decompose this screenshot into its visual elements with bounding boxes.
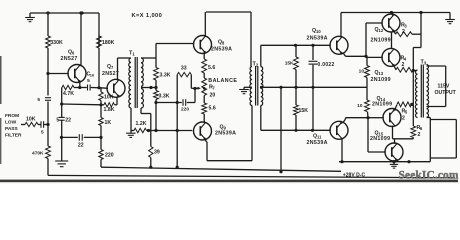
- svg-text:180K: 180K: [102, 40, 115, 46]
- svg-text:10: 10: [359, 69, 365, 75]
- svg-text:1K: 1K: [105, 120, 112, 126]
- svg-text:22: 22: [78, 142, 84, 148]
- svg-text:1.8K: 1.8K: [104, 107, 115, 113]
- svg-text:2N539A: 2N539A: [307, 140, 328, 146]
- svg-text:K=X 1,000: K=X 1,000: [132, 13, 163, 19]
- svg-text:Q6: Q6: [68, 50, 75, 56]
- svg-text:0.0022: 0.0022: [318, 62, 335, 68]
- svg-text:20: 20: [210, 93, 216, 99]
- svg-text:1.2K: 1.2K: [136, 121, 147, 127]
- svg-text:3.3K: 3.3K: [160, 73, 171, 79]
- svg-text:5: 5: [87, 78, 90, 84]
- svg-text:5.6: 5.6: [208, 65, 215, 71]
- svg-text:Q10: Q10: [312, 28, 321, 34]
- svg-text:PASS: PASS: [5, 126, 19, 132]
- svg-text:2N539A: 2N539A: [215, 131, 236, 137]
- svg-text:2N1099: 2N1099: [371, 77, 391, 83]
- svg-text:10K: 10K: [104, 95, 114, 101]
- svg-text:2: 2: [418, 132, 421, 138]
- svg-text:10: 10: [357, 103, 363, 109]
- svg-text:39: 39: [154, 150, 160, 156]
- svg-text:SeekIC.com: SeekIC.com: [399, 170, 459, 182]
- svg-text:2N1099: 2N1099: [370, 136, 390, 142]
- svg-text:FILTER: FILTER: [5, 133, 22, 139]
- svg-text:Q13: Q13: [375, 70, 384, 76]
- svg-text:115V: 115V: [438, 84, 450, 90]
- svg-text:4.7K: 4.7K: [63, 91, 74, 97]
- svg-text:3.3K: 3.3K: [159, 94, 170, 100]
- svg-text:OUTPUT: OUTPUT: [435, 90, 457, 96]
- svg-text:2N1099: 2N1099: [372, 102, 392, 108]
- svg-text:5: 5: [41, 130, 44, 136]
- svg-text:FROM: FROM: [5, 113, 19, 119]
- svg-text:2N527: 2N527: [102, 71, 119, 77]
- svg-text:5.6: 5.6: [209, 106, 216, 112]
- svg-text:5: 5: [37, 97, 40, 103]
- svg-text:BALANCE: BALANCE: [208, 78, 237, 84]
- svg-text:33: 33: [181, 65, 187, 71]
- svg-text:2N539A: 2N539A: [211, 47, 232, 53]
- svg-text:Q12: Q12: [375, 27, 384, 33]
- svg-text:LOW: LOW: [5, 120, 17, 126]
- svg-text:470K: 470K: [32, 151, 44, 157]
- svg-text:220: 220: [181, 107, 189, 113]
- svg-text:10K: 10K: [26, 117, 36, 123]
- svg-text:330K: 330K: [50, 40, 63, 46]
- svg-text:15K: 15K: [299, 108, 309, 114]
- svg-text:220: 220: [105, 153, 114, 159]
- svg-text:2: 2: [402, 62, 405, 68]
- svg-text:2N527: 2N527: [61, 56, 78, 62]
- svg-text:2N539A: 2N539A: [307, 36, 328, 42]
- svg-text:2: 2: [402, 29, 405, 35]
- svg-text:15K: 15K: [285, 61, 294, 67]
- svg-text:5: 5: [56, 117, 59, 123]
- svg-text:2N1099: 2N1099: [371, 38, 391, 44]
- svg-text:22: 22: [65, 117, 71, 123]
- svg-text:2: 2: [402, 116, 405, 122]
- svg-text:Q8: Q8: [218, 40, 225, 46]
- svg-text:Q11: Q11: [313, 134, 322, 140]
- svg-text:Q7: Q7: [107, 64, 114, 70]
